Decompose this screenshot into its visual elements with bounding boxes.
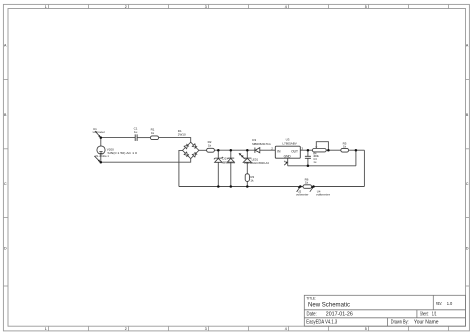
svg-text:L7805ABV: L7805ABV bbox=[282, 141, 296, 145]
wire: bridge right vertex to R2 bbox=[199, 149, 207, 151]
svg-text:1k: 1k bbox=[250, 179, 254, 183]
LED LED1 bbox=[243, 158, 251, 162]
wire: zener D2 column bbox=[217, 150, 219, 158]
svg-text:REV:: REV: bbox=[436, 301, 442, 306]
svg-text:B: B bbox=[4, 113, 7, 117]
diode D3 bbox=[255, 148, 260, 153]
svg-text:voltmeter: voltmeter bbox=[316, 193, 330, 196]
wire: bottom rail right of R6 bbox=[312, 186, 365, 188]
svg-text:5: 5 bbox=[365, 327, 367, 331]
wire: R4 to R5 bbox=[326, 149, 341, 151]
resistor R3 bbox=[245, 174, 249, 182]
wire: right side vertical down bbox=[363, 150, 365, 186]
svg-text:LED1: LED1 bbox=[252, 157, 259, 161]
title block bbox=[304, 295, 465, 326]
frame top ticks and zone numbers bbox=[49, 5, 449, 10]
svg-text:voltmeter: voltmeter bbox=[296, 193, 309, 196]
svg-text:1k: 1k bbox=[305, 181, 309, 185]
wire: R5 to right corner bbox=[349, 149, 365, 151]
wire: R1 to bridge top corner bbox=[159, 138, 191, 143]
title block text bbox=[306, 296, 452, 325]
svg-text:Drawn By:: Drawn By: bbox=[391, 319, 409, 325]
svg-text:voltmeter: voltmeter bbox=[93, 131, 106, 134]
svg-text:4: 4 bbox=[285, 5, 287, 9]
resistor R5 bbox=[341, 148, 349, 152]
svg-text:C: C bbox=[466, 182, 469, 186]
capacitor C3 bbox=[305, 156, 311, 158]
svg-text:A: A bbox=[466, 43, 469, 47]
svg-text:C: C bbox=[4, 182, 7, 186]
svg-text:1k: 1k bbox=[151, 131, 155, 135]
diode on top-right edge bbox=[189, 141, 200, 152]
svg-text:1u: 1u bbox=[134, 130, 138, 134]
frame side ticks and zone letters bbox=[3, 80, 470, 287]
svg-text:EasyEDA V4.1.3: EasyEDA V4.1.3 bbox=[306, 319, 337, 325]
pin number 1 and GND probe arrow bbox=[284, 159, 288, 165]
AC source V200 bbox=[97, 146, 105, 154]
svg-text:2: 2 bbox=[271, 146, 273, 150]
svg-text:D: D bbox=[466, 246, 469, 250]
resistor R6 (shunt) bbox=[303, 185, 312, 189]
diode on bottom-right edge bbox=[189, 149, 200, 160]
svg-text:+IN−Probe·1: +IN−Probe·1 bbox=[94, 154, 109, 158]
regulator U3 bbox=[275, 146, 300, 158]
svg-text:TITLE:: TITLE: bbox=[306, 296, 316, 300]
svg-text:1/1: 1/1 bbox=[432, 312, 437, 318]
svg-text:2: 2 bbox=[125, 327, 127, 331]
svg-text:SIN(0 1 50) AC 1 0: SIN(0 1 50) AC 1 0 bbox=[107, 151, 137, 155]
svg-text:204-10UHC/S530-A3: 204-10UHC/S530-A3 bbox=[244, 161, 269, 165]
svg-text:1k: 1k bbox=[208, 143, 212, 147]
wire: bridge left vertex to bottom rail bbox=[179, 150, 183, 186]
svg-text:OUT: OUT bbox=[291, 149, 298, 153]
svg-text:5: 5 bbox=[365, 5, 367, 9]
svg-text:B: B bbox=[466, 113, 469, 117]
diode on top-left edge bbox=[181, 141, 192, 152]
wire: bottom AC rail source to bridge bottom bbox=[101, 159, 191, 163]
wire: U3 GND pin down bbox=[287, 158, 289, 166]
wire: C1 to R1 bbox=[137, 137, 150, 139]
svg-text:IN: IN bbox=[277, 149, 281, 153]
wire: U3 OUT to C3 node and R4 bbox=[300, 149, 312, 151]
svg-text:2W10: 2W10 bbox=[178, 133, 186, 137]
svg-text:2017-01-26: 2017-01-26 bbox=[326, 312, 353, 318]
voltage probe U4 bbox=[310, 187, 330, 197]
R4 wiper arrow bbox=[315, 147, 317, 149]
svg-text:4: 4 bbox=[284, 159, 286, 163]
wire: C3 column bbox=[307, 150, 309, 156]
voltage probe at source minus bbox=[94, 156, 100, 162]
resistor R1 bbox=[150, 136, 158, 140]
wire: ground return line bbox=[288, 165, 356, 167]
potentiometer R4 bbox=[312, 149, 326, 152]
wire: D3 cathode side to U3 IN bbox=[260, 149, 276, 151]
svg-text:3: 3 bbox=[205, 327, 207, 331]
svg-text:3: 3 bbox=[301, 146, 303, 150]
wire: diode D4 column bbox=[230, 150, 232, 158]
svg-text:4: 4 bbox=[285, 327, 287, 331]
LED1 emission arrows bbox=[240, 154, 246, 159]
wire: bottom rail left of R6 bbox=[179, 186, 303, 188]
svg-text:1: 1 bbox=[45, 5, 47, 9]
wire: R4 wiper loop bbox=[316, 142, 328, 151]
junction node dots bbox=[100, 136, 358, 187]
svg-text:MBR0520LT1G: MBR0520LT1G bbox=[252, 142, 270, 146]
svg-text:2: 2 bbox=[125, 5, 127, 9]
zener diode D2 bbox=[214, 157, 223, 162]
svg-text:GND: GND bbox=[284, 154, 292, 158]
diode D4 bbox=[227, 158, 234, 162]
svg-text:1.0: 1.0 bbox=[447, 301, 453, 306]
capacitor C1 bbox=[135, 134, 137, 141]
voltage probe U1 bbox=[93, 127, 106, 138]
bridge rectifier D1 bbox=[181, 141, 200, 160]
svg-text:A: A bbox=[4, 43, 7, 47]
resistor R2 bbox=[207, 148, 215, 152]
svg-text:1k: 1k bbox=[343, 145, 347, 149]
wire: R2 to D3 anode, through nodes bbox=[214, 149, 255, 151]
wire: ground link up to output node bbox=[355, 150, 357, 166]
svg-text:Date:: Date: bbox=[307, 312, 317, 318]
voltage probe U2 bbox=[296, 187, 309, 197]
svg-text:New Schematic: New Schematic bbox=[308, 302, 350, 308]
svg-text:D3: D3 bbox=[252, 138, 256, 142]
svg-text:Your Name: Your Name bbox=[414, 319, 439, 325]
wire: LED1 column to R3 bbox=[246, 150, 248, 158]
wire: source vertical column bbox=[100, 138, 102, 147]
svg-text:Sheet:: Sheet: bbox=[420, 312, 428, 318]
diode on bottom-left edge bbox=[181, 149, 192, 160]
frame bottom ticks and zone numbers bbox=[49, 326, 449, 331]
svg-text:3: 3 bbox=[205, 5, 207, 9]
svg-text:D: D bbox=[4, 246, 7, 250]
wire: top-left rail from source to C1 bbox=[101, 137, 135, 139]
svg-text:1: 1 bbox=[45, 327, 47, 331]
